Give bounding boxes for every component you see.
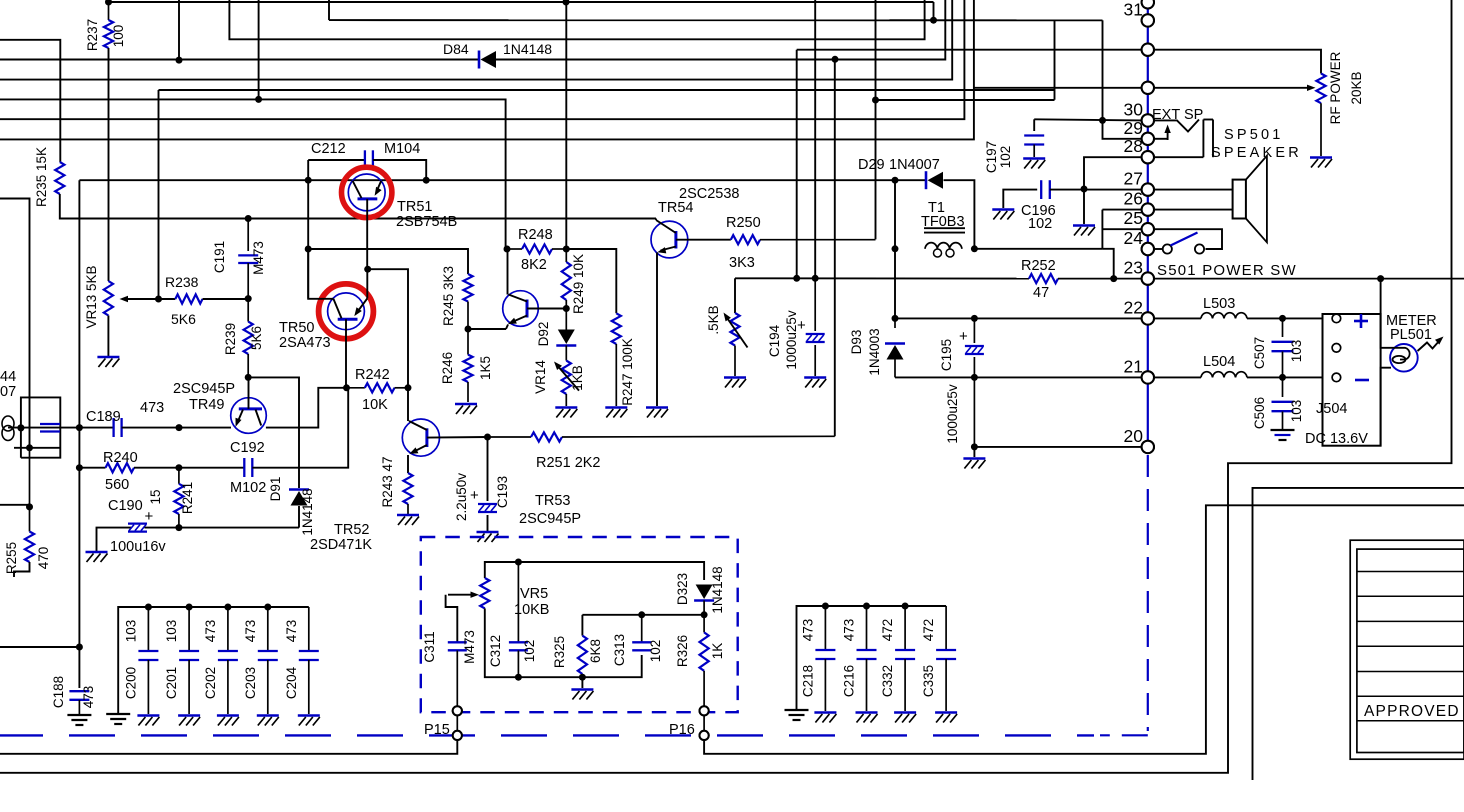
ground R243 — [397, 515, 419, 525]
label C189 — [86, 409, 121, 425]
label L504 — [1203, 354, 1235, 370]
svg-text:+: + — [959, 328, 968, 345]
node R242 right — [405, 384, 412, 391]
svg-text:PL501: PL501 — [1390, 327, 1432, 343]
node TR51 base / TR50 emitter — [364, 266, 371, 273]
label TR53 2SC945P — [519, 511, 581, 527]
wire jack tip contact — [1154, 120, 1199, 132]
transistor TR50 base bar — [338, 318, 358, 321]
svg-text:S501 POWER SW: S501 POWER SW — [1157, 262, 1297, 279]
label C200 — [123, 667, 138, 699]
wire pin25 to corner — [1102, 228, 1141, 230]
resistor R248 — [507, 244, 566, 253]
ground C196 left — [992, 210, 1014, 220]
transistor TR50 circle — [328, 293, 365, 330]
svg-text:TR54: TR54 — [658, 200, 693, 216]
wire bus y40 left piece — [0, 40, 60, 162]
wire TR base right — [527, 308, 566, 310]
label RF 20KB — [1349, 71, 1364, 104]
svg-text:560: 560 — [105, 477, 129, 493]
svg-text:103: 103 — [1289, 340, 1304, 363]
wire pin29 to arrow — [1154, 138, 1168, 140]
inductor L503 — [1154, 313, 1323, 319]
label C313 — [612, 634, 627, 666]
wire y318 to pin22 — [974, 317, 1141, 319]
connector pins P31-P20 — [1142, 0, 1154, 453]
wire D29 left — [895, 179, 925, 181]
label R250 3K3 — [729, 255, 755, 271]
wire C212 right — [373, 160, 426, 180]
node pin30 wire x1102 — [1099, 117, 1106, 124]
svg-text:2SA473: 2SA473 — [279, 335, 331, 351]
ground C200 bus left — [106, 714, 130, 724]
svg-text:C191: C191 — [212, 241, 227, 273]
label C197 — [984, 141, 999, 173]
label D91 1N4148 — [300, 488, 315, 535]
resistor R245 — [463, 274, 472, 329]
title block table — [1350, 540, 1464, 759]
label PL501 — [1390, 327, 1432, 343]
wire C190 to R241 — [145, 527, 179, 529]
switch S501 contacts — [1163, 244, 1204, 253]
inductor L504 — [1154, 372, 1323, 378]
transistor TR51 collector — [353, 181, 362, 198]
ground C196 right — [1073, 226, 1095, 236]
node C195 bottom — [971, 374, 978, 381]
label R238 — [165, 274, 199, 290]
label VR5 10KB — [514, 602, 549, 618]
transistor TR unlabeled base bar — [526, 300, 529, 318]
label C216 473 — [842, 619, 857, 642]
wire T1 left leg — [894, 180, 896, 249]
svg-text:C192: C192 — [230, 440, 265, 456]
label C201 103 — [164, 620, 179, 643]
svg-text:470: 470 — [36, 547, 51, 570]
svg-text:M473: M473 — [251, 241, 266, 275]
svg-text:R247 100K: R247 100K — [620, 338, 635, 406]
connector P15 — [453, 706, 462, 740]
transistor TR52 collector — [408, 388, 427, 430]
transformer T1 coil — [925, 243, 962, 257]
label R237 — [85, 19, 100, 51]
svg-text:TR50: TR50 — [279, 320, 314, 336]
svg-text:26: 26 — [1124, 189, 1143, 209]
svg-text:100: 100 — [111, 25, 126, 48]
wire bus y180 — [79, 179, 895, 181]
node R255 top — [26, 503, 33, 510]
wire R325 top — [582, 614, 641, 616]
ground C190 — [86, 552, 108, 562]
resistor R246 — [463, 329, 472, 402]
wire bus y59 after D84 — [495, 0, 946, 60]
label R241 — [180, 482, 195, 514]
svg-text:6K8: 6K8 — [588, 639, 603, 663]
node R241 bottom — [175, 524, 182, 531]
wire C200 bus — [118, 607, 309, 713]
wire vertical x875 upper — [875, 0, 877, 239]
label J504 plus — [1354, 314, 1368, 328]
ground C195 — [963, 459, 985, 469]
node bus278 x815 — [812, 275, 819, 282]
svg-text:473: 473 — [842, 619, 857, 642]
wire bus y40 right piece — [229, 0, 924, 39]
node C312 top — [515, 559, 522, 566]
capacitor C311 — [448, 642, 467, 706]
wire bus y99.5 — [0, 99, 506, 249]
ground C197 — [1023, 159, 1045, 169]
svg-text:RF POWER: RF POWER — [1328, 51, 1343, 124]
capacitor C189 — [114, 418, 122, 437]
wire pin27 to speaker — [1154, 189, 1233, 191]
svg-text:APPROVED: APPROVED — [1364, 703, 1460, 720]
shield dashed box — [421, 537, 738, 712]
svg-text:R248: R248 — [518, 227, 553, 243]
wire pin30 y120 — [1034, 119, 1141, 120]
highlight red circle TR51 — [342, 167, 392, 217]
label C194 1000u25v — [784, 310, 799, 370]
node C191 top on bus218 — [245, 215, 252, 222]
svg-text:3K3: 3K3 — [729, 255, 755, 271]
svg-text:R246: R246 — [440, 352, 455, 384]
wire vertical x308 — [307, 160, 309, 299]
wire pin25 switch — [1154, 229, 1222, 249]
wire bus y278 — [735, 277, 1029, 279]
label R235 15K — [34, 147, 49, 207]
svg-text:100u16v: 100u16v — [110, 539, 166, 555]
svg-text:R241: R241 — [180, 482, 195, 514]
node C188 top — [76, 644, 83, 651]
label R248 — [518, 227, 553, 243]
wire vertical x835 — [834, 59, 836, 436]
svg-text:1K: 1K — [710, 643, 725, 660]
svg-text:2SD471K: 2SD471K — [310, 537, 372, 553]
label R243 47 — [380, 456, 395, 507]
wire bus y249 — [308, 249, 468, 274]
wire y447 to pin20 — [974, 446, 1141, 448]
ground VR13 — [97, 357, 119, 367]
svg-text:VR14: VR14 — [533, 360, 548, 394]
label +15 — [145, 489, 164, 525]
wire VR5 top — [485, 562, 704, 580]
wire node269 to x408 — [368, 269, 408, 388]
wire C196 to pin27 — [1050, 189, 1142, 191]
svg-text:.5KB: .5KB — [706, 305, 721, 334]
node D93 top — [892, 315, 899, 322]
svg-text:C507: C507 — [1252, 337, 1267, 369]
label J504 minus — [1355, 379, 1369, 382]
wire y377 to pin21 — [974, 376, 1141, 378]
svg-text:TR53: TR53 — [535, 493, 570, 509]
svg-text:1N4007: 1N4007 — [889, 157, 940, 173]
svg-text:D91: D91 — [268, 477, 283, 502]
capacitor C192 — [244, 458, 252, 477]
label TR52 — [334, 522, 369, 538]
node bus278 x795 — [793, 275, 800, 282]
node C191 junction — [245, 295, 252, 302]
svg-text:1N4148: 1N4148 — [710, 566, 725, 613]
wire R237 to VR13 — [108, 48, 110, 281]
svg-text:C335: C335 — [921, 665, 936, 697]
svg-text:+: + — [470, 487, 479, 504]
component left box outline — [21, 397, 60, 457]
label D323 1N4148 — [710, 566, 725, 613]
label R246 — [440, 352, 455, 384]
capacitor C216 — [856, 603, 878, 723]
wire T1 right to switch rail — [974, 248, 1102, 250]
label C197 102 — [998, 146, 1013, 169]
wire connector line dashed — [1147, 455, 1149, 731]
svg-text:24: 24 — [1124, 228, 1144, 248]
label R238 5K6 — [171, 311, 196, 327]
wire D91 up — [298, 481, 300, 488]
wire bus y139 — [0, 0, 974, 139]
svg-text:C216: C216 — [842, 665, 857, 697]
label D29 — [858, 157, 885, 173]
node R248 right — [563, 246, 570, 253]
meter arrow — [1418, 337, 1444, 352]
svg-text:R237: R237 — [85, 19, 100, 51]
label P16 — [669, 722, 695, 738]
label C204 473 — [284, 620, 299, 643]
label C506 103 — [1289, 400, 1304, 423]
label C216 — [842, 665, 857, 697]
node R325 bottom — [579, 674, 586, 681]
label C191 — [212, 241, 227, 273]
wire pin26 to speaker — [1102, 209, 1232, 211]
label VR14 1KB — [570, 365, 585, 391]
transistor TR52 circle — [402, 419, 439, 456]
ground R325 — [571, 690, 593, 700]
node TR50 base at R242 — [343, 384, 350, 391]
connector P16 circles overlay — [700, 706, 709, 740]
label R248 8K2 — [521, 257, 547, 273]
svg-text:R239: R239 — [223, 323, 238, 355]
svg-text:C201: C201 — [164, 667, 179, 699]
svg-text:2.2u50v: 2.2u50v — [454, 473, 469, 521]
wire D29 right — [944, 180, 975, 248]
wire TR50 emitter up — [366, 269, 368, 298]
svg-text:C332: C332 — [880, 665, 895, 697]
wire C189 right segment — [122, 427, 231, 429]
svg-text:C313: C313 — [612, 634, 627, 666]
capacitor C190 electrolytic — [128, 524, 147, 532]
label C188 473 — [81, 686, 96, 709]
svg-text:15: 15 — [148, 489, 163, 504]
label S501 POWER SW — [1157, 262, 1297, 279]
svg-text:L504: L504 — [1203, 354, 1235, 370]
wire R241 to D91 — [179, 506, 299, 528]
wire TR51 base down — [366, 199, 368, 269]
svg-text:C200: C200 — [123, 667, 138, 699]
wire x159 vertical — [158, 90, 160, 299]
svg-text:C218: C218 — [800, 665, 815, 697]
diode D323 — [694, 585, 714, 615]
wire P16 out — [704, 505, 1464, 754]
label 2.2u50v — [454, 473, 469, 521]
wire D93 bottom y377 — [895, 376, 974, 378]
label M102 — [230, 480, 266, 496]
svg-text:SP501: SP501 — [1224, 127, 1284, 143]
svg-text:C212: C212 — [311, 141, 346, 157]
transistor TR49 circle — [231, 398, 267, 434]
transistor TR52 base bar — [425, 428, 428, 447]
svg-text:22: 22 — [1124, 297, 1143, 317]
wire TR54 base — [676, 239, 731, 241]
node left box a — [17, 424, 24, 431]
wire R239 junction to D91 branch — [248, 377, 299, 481]
svg-text:R235 15K: R235 15K — [34, 147, 49, 207]
transistor TR51 circle — [348, 174, 385, 211]
capacitor C195 electrolytic — [965, 318, 984, 447]
node bus278 x1113 — [1110, 275, 1117, 282]
svg-text:VR5: VR5 — [520, 586, 548, 602]
label C201 — [164, 667, 179, 699]
svg-text:R238: R238 — [165, 274, 199, 290]
wire TR49 right segment — [266, 388, 347, 428]
label VR13 5KB — [84, 265, 99, 328]
connector P15 circles overlay — [453, 706, 462, 740]
wire jack arrow — [1164, 125, 1170, 141]
svg-text:102: 102 — [522, 640, 537, 663]
label C311 — [422, 631, 437, 662]
resistor R238 — [159, 294, 248, 303]
resistor R251 — [488, 432, 835, 441]
wire C190 ground leg — [97, 528, 132, 551]
label D92 — [536, 322, 551, 347]
label TR50 2SA473 — [279, 335, 331, 351]
diode D91 — [289, 490, 309, 506]
wire left box — [0, 199, 30, 398]
wire connector dashed corner — [1100, 734, 1148, 736]
label METER — [1386, 313, 1437, 329]
node bus180 at x308 — [305, 177, 312, 184]
svg-text:07: 07 — [0, 384, 16, 400]
resistor R241 — [174, 468, 183, 528]
connector pins overlay — [1142, 0, 1154, 453]
label 473 — [140, 400, 164, 416]
wire pin28 y157 — [1084, 157, 1142, 189]
label C507 103 — [1289, 340, 1304, 363]
svg-text:R243 47: R243 47 — [380, 456, 395, 507]
svg-text:1N4148: 1N4148 — [300, 488, 315, 535]
wire bus y59 — [0, 59, 478, 61]
label TR51 — [397, 199, 432, 215]
label 2SC945P TR49 — [173, 381, 235, 397]
node x308 at bus249 — [305, 246, 312, 253]
svg-text:103: 103 — [1289, 400, 1304, 423]
svg-text:5K6: 5K6 — [171, 311, 196, 327]
node wireB x80 — [76, 464, 83, 471]
svg-text:SPEAKER: SPEAKER — [1211, 145, 1302, 161]
label SPEAKER — [1211, 145, 1302, 161]
wiper VR5 — [446, 592, 479, 643]
node wireA x21 — [17, 424, 24, 431]
wire left box inner — [14, 397, 60, 447]
wire pot 5KB — [734, 278, 736, 313]
label C313 102 — [648, 640, 663, 663]
node T1 right — [971, 245, 978, 252]
label R249 10K — [571, 254, 586, 314]
ground C218 bus left — [785, 710, 809, 720]
svg-text:+: + — [145, 508, 154, 525]
diode D29 — [926, 171, 943, 189]
svg-text:30: 30 — [1124, 99, 1144, 119]
svg-text:C506: C506 — [1252, 397, 1267, 429]
speaker SP501 — [1233, 156, 1267, 243]
transistor TR50 collector wire — [308, 249, 333, 299]
svg-text:1000u25v: 1000u25v — [945, 384, 960, 444]
resistor R247 — [612, 313, 621, 406]
label C335 — [921, 665, 936, 697]
svg-text:10KB: 10KB — [514, 602, 549, 618]
label C312 — [488, 635, 503, 667]
node C196 right — [1081, 186, 1088, 193]
node bus278 x1380 — [1377, 275, 1384, 282]
capacitor C193 electrolytic — [478, 504, 497, 512]
wire pin49 to RF pot — [1142, 50, 1322, 74]
svg-text:27: 27 — [1124, 169, 1143, 189]
wire bus y90 — [159, 89, 1055, 91]
svg-text:VR13 5KB: VR13 5KB — [84, 265, 99, 328]
node bus20/bus2 join — [930, 17, 937, 24]
svg-text:102: 102 — [998, 146, 1013, 169]
transistor TR51 emitter — [375, 181, 382, 196]
svg-text:R255: R255 — [4, 542, 19, 574]
node D29 left — [892, 177, 899, 184]
svg-text:10K: 10K — [362, 397, 388, 413]
wire R325 ground leg — [581, 677, 583, 688]
node C313 top — [638, 611, 645, 618]
label VR14 — [533, 360, 548, 394]
wire y100 right — [876, 99, 1055, 101]
svg-text:102: 102 — [1028, 216, 1052, 232]
node bus99 at x258.6 — [255, 96, 262, 103]
capacitor C335 — [935, 606, 957, 723]
wire C192 left — [179, 467, 244, 469]
ground TR54 emitter — [646, 408, 668, 418]
label RF POWER — [1328, 51, 1343, 124]
svg-text:20KB: 20KB — [1349, 71, 1364, 104]
label C218 473 — [800, 619, 815, 642]
wire C313 to D323 — [642, 614, 704, 616]
svg-text:C202: C202 — [203, 667, 218, 699]
wire P15 out — [0, 740, 457, 754]
node wireA x80 — [76, 424, 83, 431]
label R251 2K2 — [536, 455, 601, 471]
svg-text:1K5: 1K5 — [478, 356, 493, 380]
svg-text:R245 3K3: R245 3K3 — [441, 266, 456, 326]
resistor R239 — [244, 299, 253, 378]
label R242 — [355, 367, 390, 383]
svg-text:TR49: TR49 — [189, 397, 224, 413]
label C311 M473 — [462, 630, 477, 664]
svg-text:R249 10K: R249 10K — [571, 254, 586, 314]
transistor TR50 collector diag — [333, 299, 341, 318]
ground R246 — [455, 404, 477, 414]
resistor R325 — [578, 615, 587, 677]
svg-text:R251 2K2: R251 2K2 — [536, 455, 601, 471]
svg-text:20: 20 — [1124, 426, 1144, 446]
label R255 470 — [36, 547, 51, 570]
svg-text:C189: C189 — [86, 409, 121, 425]
label D323 — [675, 573, 690, 605]
ground VR14 — [555, 408, 577, 418]
capacitor C332 — [894, 603, 916, 723]
svg-text:21: 21 — [1124, 356, 1143, 376]
label D84 — [443, 41, 469, 57]
wire vertical x815 — [814, 0, 816, 278]
label EXT SP — [1152, 107, 1203, 123]
